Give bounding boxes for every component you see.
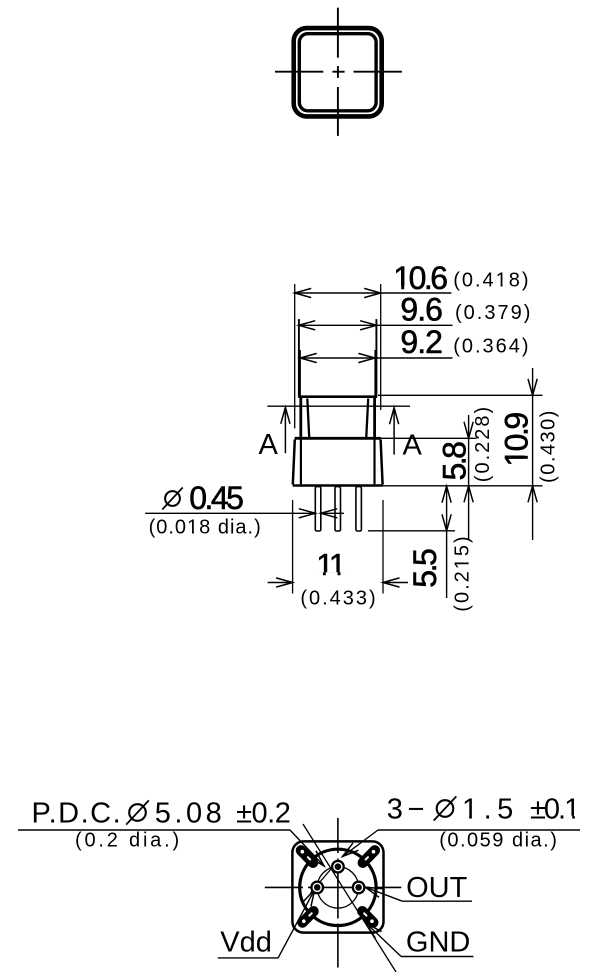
svg-text:OUT: OUT <box>406 872 468 904</box>
svg-text:(0.379): (0.379) <box>455 302 532 324</box>
svg-text:9.6: 9.6 <box>400 291 442 327</box>
svg-text:(0.364): (0.364) <box>453 336 530 358</box>
svg-text:A: A <box>403 429 423 461</box>
svg-text:(0.018 dia.): (0.018 dia.) <box>149 517 262 539</box>
svg-text:A: A <box>259 429 279 461</box>
svg-text:(0.228): (0.228) <box>472 405 494 482</box>
svg-text:3: 3 <box>387 794 403 826</box>
svg-text:(0.430): (0.430) <box>538 409 560 483</box>
svg-text:±0.1: ±0.1 <box>530 794 579 826</box>
svg-text:±0.2: ±0.2 <box>236 798 290 830</box>
svg-text:9.2: 9.2 <box>400 324 442 360</box>
svg-text:1.5: 1.5 <box>462 794 519 826</box>
svg-text:5.8: 5.8 <box>436 442 472 481</box>
svg-text:Vdd: Vdd <box>220 927 272 959</box>
svg-text:5.5: 5.5 <box>407 549 443 588</box>
svg-text:GND: GND <box>406 927 470 959</box>
svg-text:P.D.C.: P.D.C. <box>32 798 123 830</box>
svg-text:(0.059 dia.): (0.059 dia.) <box>439 830 558 852</box>
svg-text:(0.215): (0.215) <box>452 534 474 611</box>
svg-text:0.45: 0.45 <box>189 480 243 516</box>
svg-text:5.08: 5.08 <box>155 798 225 830</box>
svg-text:(0.433): (0.433) <box>300 588 377 610</box>
svg-text:(0.2 dia.): (0.2 dia.) <box>75 830 182 852</box>
svg-text:−: − <box>408 794 425 826</box>
svg-text:10.9: 10.9 <box>499 413 535 467</box>
svg-text:(0.418): (0.418) <box>453 270 530 292</box>
